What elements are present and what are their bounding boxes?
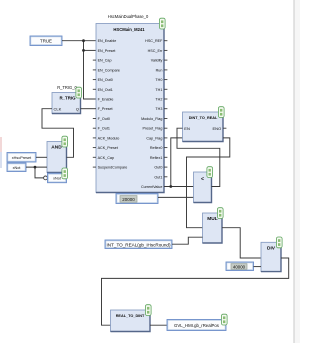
wire branch EN_Preset [84, 49, 97, 51]
pin input EN_Cap [93, 59, 96, 61]
svg-text:<: < [201, 176, 204, 182]
svg-text:xHscPreset: xHscPreset [12, 156, 32, 160]
svg-text:TRUE: TRUE [40, 39, 52, 44]
negation circle [44, 176, 48, 180]
pin output Preset_Flag [164, 127, 167, 129]
svg-text:CLK: CLK [54, 106, 62, 111]
pin output Validity [164, 59, 167, 61]
constant 40000 [226, 262, 254, 271]
function block U1 HSCMain_M241 instance HscMainDualPhase_0 [93, 14, 168, 192]
divider DIV [261, 237, 282, 272]
svg-text:EN_Out1: EN_Out1 [98, 88, 113, 92]
editor right gutter tint [295, 0, 301, 343]
svg-text:INT_TO_REAL(gb_iHscRound): INT_TO_REAL(gb_iHscRound) [107, 242, 171, 247]
svg-text:Run: Run [156, 68, 163, 72]
svg-text:Modulo_Flag: Modulo_Flag [141, 117, 162, 121]
wire INT_TO_REAL box to MUL in2 [172, 237, 203, 244]
node junction EN_Enable [82, 39, 85, 42]
svg-text:Out0: Out0 [154, 166, 162, 170]
svg-text:Out1: Out1 [154, 175, 162, 179]
svg-text:Cap_Flag: Cap_Flag [146, 136, 162, 140]
svg-text:ACK_Preset: ACK_Preset [98, 146, 118, 150]
svg-text:SuspendCompare: SuspendCompare [98, 166, 128, 170]
wire CurrentValue to LT in1 [164, 186, 194, 188]
wire xNot to AND in2 [26, 166, 47, 168]
svg-text:TH3: TH3 [155, 107, 162, 111]
svg-text:F_Out1: F_Out1 [98, 127, 110, 131]
svg-text:EN_Out0: EN_Out0 [98, 78, 113, 82]
node junction xNot [34, 166, 37, 169]
wire DIV out to REAL_TO_DINT [102, 258, 289, 325]
svg-text:EN_Compare: EN_Compare [98, 68, 120, 72]
wire MUL out to DIV in1 [222, 228, 261, 258]
svg-text:xNot: xNot [53, 177, 62, 181]
svg-text:xNot: xNot [13, 166, 22, 170]
pin output Cap_Flag [164, 137, 167, 139]
assignment box xNot [48, 168, 68, 183]
wire REAL_TO_DINT out to output variable [150, 324, 167, 326]
svg-text:HSC_REF: HSC_REF [145, 39, 163, 43]
pin input EN_Out1 [93, 88, 96, 90]
svg-text:ENO: ENO [213, 126, 222, 131]
svg-text:Reflex0: Reflex0 [150, 146, 163, 150]
svg-text:TH0: TH0 [155, 78, 162, 82]
svg-text:Q: Q [76, 106, 79, 111]
pin output Modulo_Flag [164, 118, 167, 120]
pin output TH1 [164, 88, 167, 90]
svg-text:EN_Enable: EN_Enable [98, 39, 117, 43]
svg-text:EN: EN [184, 126, 190, 131]
pin output Reflex0 [164, 147, 167, 149]
multiplier MUL [203, 208, 224, 243]
svg-text:HSC_Err: HSC_Err [148, 49, 164, 53]
pin output TH0 [164, 79, 167, 81]
pin output Reflex1 [164, 156, 167, 158]
pin output TH3 [164, 108, 167, 110]
pin input ACK_Modulo [93, 137, 96, 139]
function block R_TRIG instance R_TRIG_0 [52, 85, 82, 114]
pin output HSC_REF [164, 40, 167, 42]
left-edge window artifact red [0, 137, 2, 152]
svg-text:Reflex1: Reflex1 [150, 156, 163, 160]
pin input EN_Compare [93, 69, 96, 71]
svg-text:40000: 40000 [233, 264, 246, 269]
constant TRUE [30, 36, 62, 46]
pin input F_Out0 [93, 118, 96, 120]
svg-text:R_TRIG_0: R_TRIG_0 [57, 85, 77, 90]
pin input ACK_Cap [93, 156, 96, 158]
svg-text:AND: AND [51, 144, 62, 150]
wire branch CurrentValue up to DINT_TO_REAL in [171, 138, 183, 187]
svg-text:HscMainDualPhase_0: HscMainDualPhase_0 [108, 14, 149, 19]
wire TRUE to EN_Enable [62, 40, 96, 42]
comparator LT [194, 167, 213, 203]
svg-text:REAL_TO_DINT: REAL_TO_DINT [116, 314, 145, 318]
output variable box GVL_HMI.gb_rRealPos [167, 314, 227, 330]
variable box xHscPreset [7, 153, 36, 163]
function block DINT_TO_REAL [183, 107, 227, 142]
svg-text:Preset_Flag: Preset_Flag [143, 127, 163, 131]
svg-text:TH2: TH2 [155, 98, 162, 102]
svg-text:R_TRIG: R_TRIG [59, 95, 76, 100]
wire AND out to R_TRIG CLK [42, 109, 74, 158]
svg-text:ACK_Cap: ACK_Cap [98, 156, 114, 160]
pin input SuspendCompare [93, 166, 96, 168]
wire xHscPreset to AND in1 [36, 156, 47, 158]
constant 20000 [116, 194, 158, 204]
editor right border [293, 0, 295, 343]
svg-text:ACK_Modulo: ACK_Modulo [98, 136, 120, 140]
wire 40000 to DIV in2 [254, 266, 262, 268]
svg-text:TH1: TH1 [155, 88, 162, 92]
function block REAL_TO_DINT [111, 305, 152, 332]
variable box INT_TO_REAL(gb_iHscRound) [105, 240, 172, 249]
pin input ACK_Preset [93, 147, 96, 149]
svg-text:Validity: Validity [151, 59, 163, 63]
left-edge window artifact blue [0, 152, 2, 168]
pin output Out1 [164, 176, 167, 178]
wire R_TRIG Q to F_Preset [81, 108, 97, 110]
wire branch xNot down to negated assign [35, 167, 44, 178]
pin input EN_Out0 [93, 79, 96, 81]
svg-text:DINT_TO_REAL: DINT_TO_REAL [189, 116, 218, 120]
variable box xNot [7, 163, 26, 172]
pin input F_Out1 [93, 127, 96, 129]
pin output CurrentValue [164, 186, 167, 188]
svg-text:20000: 20000 [122, 197, 135, 202]
svg-text:CurrentValue: CurrentValue [141, 185, 162, 189]
svg-text:HSCMain_M241: HSCMain_M241 [113, 27, 145, 32]
pin output Out0 [164, 166, 167, 168]
svg-text:GVL_HMI.gb_rRealPos: GVL_HMI.gb_rRealPos [174, 323, 219, 328]
wire DINT_TO_REAL out to MUL in1 [187, 138, 230, 228]
svg-text:EN_Cap: EN_Cap [98, 59, 112, 63]
wire LT out feedback to DINT_TO_REAL EN [177, 128, 220, 186]
svg-text:F_Enable: F_Enable [98, 98, 114, 102]
node junction CurrentValue [169, 185, 172, 188]
function block AND [47, 136, 68, 172]
node junction EN_Preset [82, 49, 85, 52]
wire bus vertical TRUE [84, 41, 97, 99]
pin output TH2 [164, 98, 167, 100]
svg-text:F_Preset: F_Preset [98, 107, 113, 111]
svg-text:DIV: DIV [267, 245, 276, 251]
pin output Run [164, 69, 167, 71]
svg-text:EN_Preset: EN_Preset [98, 49, 116, 53]
wire 20000 to LT in2 [158, 196, 194, 198]
svg-text:MUL: MUL [207, 216, 217, 222]
svg-text:F_Out0: F_Out0 [98, 117, 110, 121]
pin output HSC_Err [164, 49, 167, 51]
